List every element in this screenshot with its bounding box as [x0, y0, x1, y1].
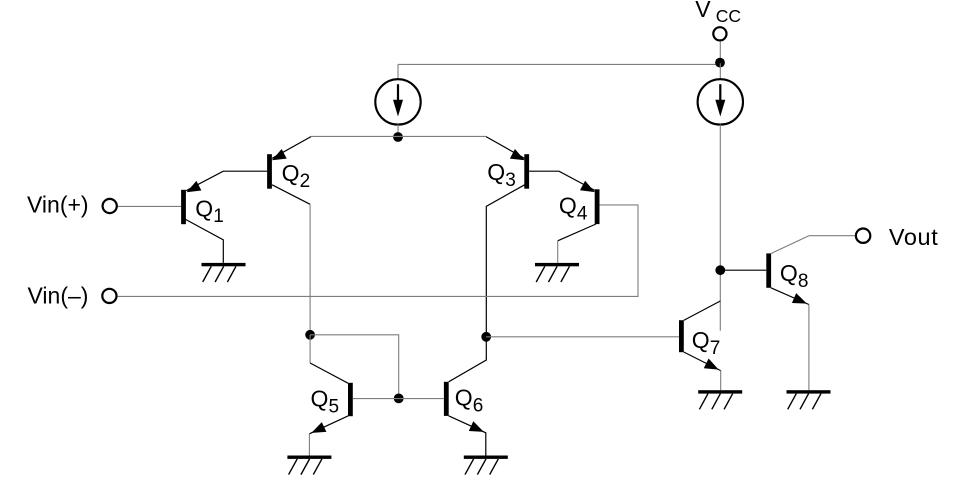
transistor Q4 emitter arrow	[580, 181, 595, 192]
wire Vin(-) net	[116, 205, 638, 297]
transistor Q1 emitter wire	[186, 171, 267, 191]
transistor Q3 collector wire	[486, 185, 524, 337]
svg-text:Q: Q	[487, 159, 505, 185]
transistor Q6 emitter wire	[449, 416, 486, 456]
terminal Vout	[856, 229, 870, 243]
transistor Q5 emitter arrow	[311, 422, 326, 433]
transistor Q2 base bar	[267, 154, 272, 189]
transistor Q7 base bar	[679, 320, 684, 352]
transistor Q6 collector wire	[449, 337, 487, 382]
transistor Q8 collector wire	[771, 236, 809, 254]
ground under Q4	[535, 263, 579, 282]
current source I1	[375, 79, 420, 124]
svg-text:Vin(+): Vin(+)	[27, 192, 89, 218]
wire I2 output lead	[719, 125, 721, 331]
wire I1 top lead	[397, 64, 399, 79]
svg-text:V: V	[695, 0, 711, 22]
svg-text:Q: Q	[311, 386, 329, 412]
ground under Q7	[698, 390, 742, 409]
transistor Q4 collector wire	[558, 224, 596, 241]
wire Q8 collector to Vout	[809, 235, 855, 237]
ground under Q8	[787, 390, 831, 409]
transistor Q1 collector wire	[185, 219, 224, 263]
transistor Q7 emitter wire	[684, 352, 721, 371]
svg-text:Q: Q	[692, 327, 710, 353]
transistor Q1 emitter arrow	[187, 181, 202, 192]
node Q3-Q6 junction	[481, 332, 491, 342]
wire Q8 base lead	[720, 269, 766, 271]
transistor Q2 emitter wire	[272, 137, 311, 159]
transistor Q4 base bar	[595, 189, 600, 224]
svg-text:Vin(–): Vin(–)	[28, 283, 89, 309]
transistor Q5 emitter wire	[309, 416, 348, 434]
transistor Q6 emitter arrow	[469, 421, 484, 432]
wire Q8 emitter stub	[808, 305, 810, 391]
wire tail rail	[311, 135, 486, 137]
wire Vin(+) lead	[117, 205, 181, 207]
transistor Q1 base bar	[181, 190, 186, 224]
node Q2-Q5 junction	[305, 330, 315, 340]
svg-text:2: 2	[300, 171, 311, 192]
wire Q5 collector riser	[309, 335, 311, 363]
ground under Q5	[287, 456, 331, 475]
wire Q5 base lead	[353, 398, 399, 400]
wire I2 top lead	[719, 63, 721, 79]
node Vcc junction	[715, 58, 725, 68]
wire Q4 collector stub	[557, 241, 559, 263]
label Vcc	[695, 0, 741, 26]
svg-text:4: 4	[577, 203, 588, 224]
transistor Q3 emitter arrow	[510, 149, 525, 160]
transistor Q5 collector wire	[310, 363, 348, 383]
transistor Q8 emitter wire	[771, 288, 809, 305]
svg-text:8: 8	[798, 271, 809, 292]
svg-text:5: 5	[329, 396, 340, 417]
wire Q7 emitter stub	[720, 371, 722, 391]
wire Q6 collector to Q7 base	[486, 336, 679, 338]
transistor Q2 emitter arrow	[272, 149, 287, 160]
svg-text:Q: Q	[559, 193, 577, 219]
svg-text:Q: Q	[780, 260, 798, 286]
ground under Q1	[202, 263, 246, 282]
transistor Q7 emitter arrow	[704, 359, 719, 370]
terminal Vin(+)	[103, 199, 117, 213]
transistor Q8 base bar	[766, 253, 771, 287]
node Q8 base junction	[715, 265, 725, 275]
transistor Q7 collector wire	[684, 301, 721, 320]
node Q5-Q6 base junction	[394, 394, 404, 404]
wire Q2 collector vertical	[309, 204, 311, 334]
wire mirror link	[310, 335, 399, 399]
svg-text:Q: Q	[455, 385, 473, 411]
terminal Vin(-)	[102, 289, 116, 303]
wire Q5 emitter stub	[308, 434, 310, 456]
transistor Q3 emitter wire	[486, 137, 524, 159]
transistor Q8 emitter arrow	[792, 293, 807, 304]
wire Q3 base to Q4	[529, 171, 595, 190]
transistor Q3 base bar	[524, 154, 529, 189]
svg-text:Vout: Vout	[889, 224, 938, 250]
svg-text:7: 7	[710, 338, 721, 359]
transistor Q2 collector wire	[272, 185, 310, 205]
svg-text:1: 1	[213, 206, 224, 227]
svg-text:Q: Q	[195, 195, 213, 221]
wire top rail	[398, 63, 720, 65]
ground under Q6	[464, 456, 508, 475]
wire Q6 base lead	[399, 398, 444, 400]
wire Vcc lead	[719, 41, 721, 63]
svg-text:Q: Q	[282, 160, 300, 186]
current source I2	[698, 79, 743, 124]
wire I1 bottom lead	[397, 125, 399, 137]
transistor Q5 base bar	[348, 383, 353, 416]
node tail junction	[393, 132, 403, 142]
svg-text:CC: CC	[716, 6, 741, 26]
svg-text:6: 6	[473, 396, 484, 417]
terminal Vcc	[713, 27, 726, 40]
svg-text:3: 3	[505, 170, 516, 191]
transistor Q6 base bar	[444, 382, 449, 416]
